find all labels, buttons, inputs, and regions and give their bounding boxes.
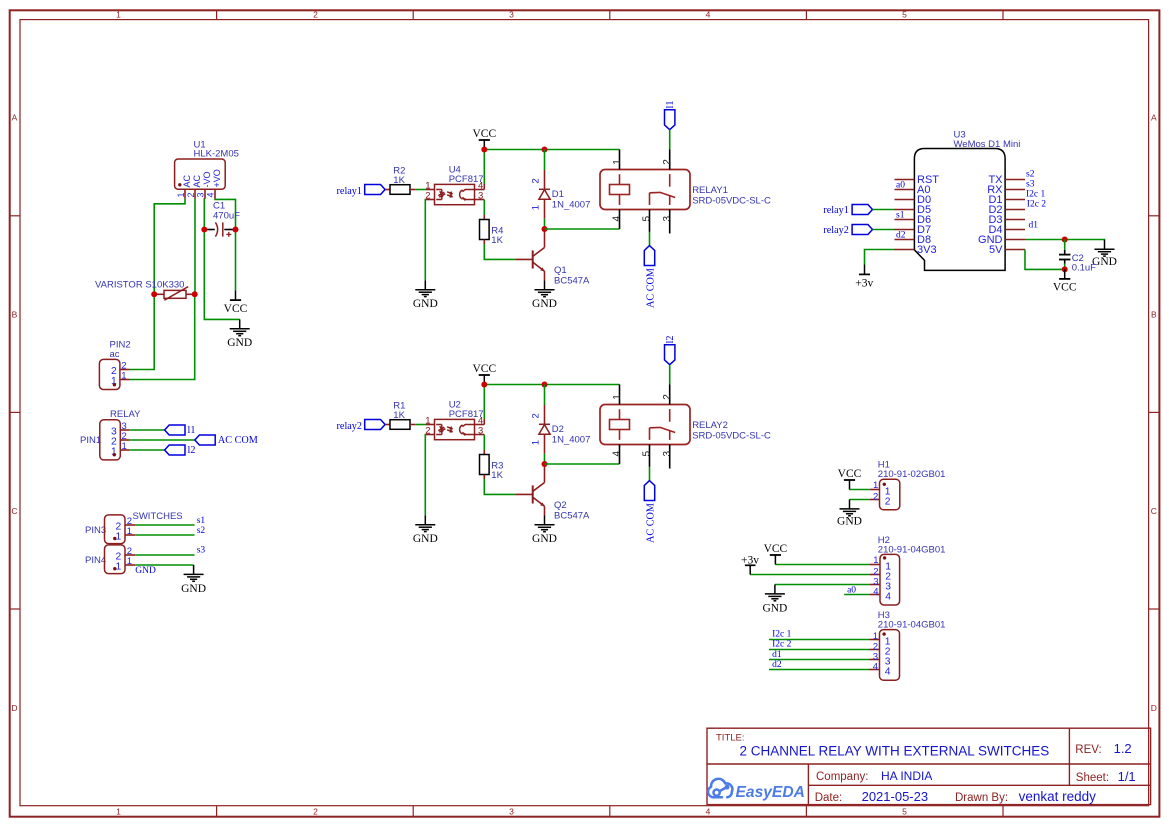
junction C2 top <box>1062 237 1068 243</box>
wire U1 pin1 to PIN2.2 / varistor left <box>130 199 186 370</box>
svg-text:l2: l2 <box>188 445 196 456</box>
svg-text:GND: GND <box>413 298 438 310</box>
svg-text:AC COM: AC COM <box>646 268 657 308</box>
wire U4 pin2 down to GND <box>424 200 427 281</box>
svg-text:VCC: VCC <box>838 468 862 480</box>
EasyEDA logo <box>708 779 805 801</box>
power flag VCC above H2.1 <box>764 543 788 564</box>
transistor Q2 BC547A <box>516 464 590 522</box>
svg-text:1: 1 <box>116 562 122 573</box>
svg-text:2: 2 <box>186 192 196 197</box>
svg-text:s2: s2 <box>197 526 206 536</box>
svg-text:AC: AC <box>182 174 192 187</box>
wire U1 pin3 to C1 left and GND <box>204 199 239 320</box>
wire PIN3.2 net s1 <box>135 516 205 526</box>
wire relay pin5 to AC COM flag <box>649 467 651 481</box>
svg-text:GND: GND <box>135 566 156 576</box>
svg-text:4: 4 <box>873 662 878 673</box>
svg-text:I2c 1: I2c 1 <box>1026 189 1046 199</box>
junction C2 bottom <box>1062 266 1068 272</box>
net flag l1 <box>165 425 196 436</box>
svg-text:1: 1 <box>176 192 186 197</box>
net flag relay1 to U3.D5 <box>823 205 872 216</box>
wire VCC rail down to U4 pin4 <box>483 150 485 190</box>
wire junction to relay pin4 <box>545 463 620 465</box>
svg-text:1: 1 <box>116 807 121 817</box>
svg-text:GND: GND <box>227 337 252 349</box>
svg-text:1.2: 1.2 <box>1114 741 1132 756</box>
svg-text:AC COM: AC COM <box>646 503 657 543</box>
relay RELAY2 SRD-05VDC-SL-C <box>600 385 771 469</box>
svg-text:1N_4007: 1N_4007 <box>552 434 591 445</box>
svg-text:AC COM: AC COM <box>218 435 258 446</box>
svg-text:1: 1 <box>873 555 878 566</box>
svg-text:BC547A: BC547A <box>554 276 590 287</box>
svg-text:HA INDIA: HA INDIA <box>881 769 932 783</box>
wire U3.3V3 to +3v <box>865 250 895 265</box>
svg-text:I2c 2: I2c 2 <box>772 640 792 650</box>
optocoupler U4 PCF817 <box>425 165 484 205</box>
svg-text:1: 1 <box>531 440 542 445</box>
transistor Q1 BC547A <box>516 229 590 287</box>
svg-text:+3v: +3v <box>741 554 759 566</box>
junction diode top <box>542 382 548 388</box>
wire VCC rail to diode D1 <box>544 150 546 171</box>
wire PIN1.1 to flag l2 <box>130 449 165 451</box>
power flag VCC below C2 <box>1053 269 1077 293</box>
wire U3.5V to C2 bottom <box>1025 250 1065 270</box>
svg-text:1K: 1K <box>491 470 503 481</box>
svg-text:venkat reddy: venkat reddy <box>1019 789 1097 804</box>
svg-text:VCC: VCC <box>764 543 788 555</box>
svg-text:1: 1 <box>116 10 121 20</box>
power flag VCC below C1 <box>224 291 248 316</box>
wire H2.2 to +3v <box>750 574 870 576</box>
svg-text:SWITCHES: SWITCHES <box>133 511 183 522</box>
resistor R3 1K <box>480 450 504 481</box>
svg-text:1: 1 <box>873 480 878 491</box>
wire U2 pin2 down to GND <box>424 435 427 516</box>
svg-text:4: 4 <box>205 192 215 197</box>
net label I2c 2 on U3.D2 <box>1027 199 1047 209</box>
diode D2 1N_4007 <box>531 405 591 454</box>
svg-text:C: C <box>11 506 17 516</box>
svg-text:a0: a0 <box>896 180 905 190</box>
wire diode D2 to junction <box>544 454 546 464</box>
svg-text:4: 4 <box>612 216 623 222</box>
title block <box>707 728 1151 804</box>
resistor R4 1K <box>480 215 504 246</box>
net flag relay2 input <box>337 420 386 433</box>
power flag VCC rail channel 2 <box>472 363 496 385</box>
net flag AC COM below relay pin5 <box>644 246 656 308</box>
svg-text:GND: GND <box>181 583 206 595</box>
svg-text:4: 4 <box>612 451 623 457</box>
svg-text:relay2: relay2 <box>823 225 848 236</box>
svg-text:1: 1 <box>116 532 122 543</box>
svg-text:GND: GND <box>837 516 862 528</box>
svg-text:5: 5 <box>902 10 907 20</box>
resistor R1 1K <box>385 400 415 429</box>
svg-text:3: 3 <box>509 807 514 817</box>
wire VCC rail to diode D2 <box>544 385 546 406</box>
junction varistor right <box>192 291 198 297</box>
svg-text:D: D <box>11 703 17 713</box>
wire U4 pin3 to resistor R4 <box>483 200 485 216</box>
svg-text:3: 3 <box>509 10 514 20</box>
svg-text:I2c 1: I2c 1 <box>772 630 792 640</box>
wire H3.2 net I2c 2 <box>769 640 870 650</box>
wire PIN1.3 to flag l1 <box>130 429 165 431</box>
svg-text:s3: s3 <box>1026 179 1035 189</box>
svg-text:4: 4 <box>873 586 878 597</box>
svg-text:s3: s3 <box>197 546 206 556</box>
net label d2 on U3.D8 <box>896 230 906 240</box>
module U1 HLK-2M05 <box>175 140 239 199</box>
connector PIN1 (RELAY) <box>80 409 141 460</box>
svg-text:210-91-02GB01: 210-91-02GB01 <box>878 469 946 480</box>
net label d1 on U3.D4 <box>1029 220 1039 230</box>
svg-text:1K: 1K <box>491 235 503 246</box>
svg-text:470uF: 470uF <box>213 211 240 222</box>
power flag GND right of U3 <box>1092 240 1117 268</box>
svg-text:2: 2 <box>313 10 318 20</box>
wire U1 pin4 to C1 right and VCC <box>215 199 236 291</box>
svg-text:Drawn By:: Drawn By: <box>955 792 1008 804</box>
svg-text:GND: GND <box>532 298 557 310</box>
svg-text:B: B <box>1151 310 1157 320</box>
power flag GND below H1.2 <box>837 500 862 528</box>
wire U2 pin3 to resistor R3 <box>483 435 485 451</box>
svg-text:relay1: relay1 <box>823 205 848 216</box>
wire flag l2 to relay pin2 <box>669 365 671 385</box>
svg-text:d1: d1 <box>772 650 782 660</box>
wire H3.4 net d2 <box>769 660 870 670</box>
svg-text:SRD-05VDC-SL-C: SRD-05VDC-SL-C <box>692 431 771 442</box>
svg-text:2: 2 <box>662 394 673 400</box>
svg-text:A: A <box>1151 113 1157 123</box>
svg-text:s2: s2 <box>1026 169 1035 179</box>
svg-text:relay1: relay1 <box>337 186 362 197</box>
svg-text:1: 1 <box>612 159 623 165</box>
wire flag l1 to relay pin2 <box>669 130 671 150</box>
svg-text:3: 3 <box>478 191 483 202</box>
power flag +3v above H2.2 <box>741 554 759 574</box>
svg-text:RELAY: RELAY <box>110 409 141 420</box>
resistor R2 1K <box>385 165 415 194</box>
svg-text:PIN4: PIN4 <box>85 555 106 566</box>
svg-text:5: 5 <box>642 216 653 222</box>
net flag AC COM below relay pin5 <box>644 481 656 543</box>
svg-text:1: 1 <box>127 526 132 537</box>
connector PIN4 (switches) <box>85 545 135 574</box>
svg-text:I2c 2: I2c 2 <box>1027 199 1047 209</box>
svg-text:3V3: 3V3 <box>917 244 937 256</box>
svg-text:1: 1 <box>122 441 127 452</box>
header H2 210-91-04GB01 <box>870 535 945 605</box>
svg-text:GND: GND <box>532 533 557 545</box>
svg-text:2 CHANNEL RELAY WITH EXTERNAL: 2 CHANNEL RELAY WITH EXTERNAL SWITCHES <box>740 744 1050 759</box>
svg-text:0.1uF: 0.1uF <box>1072 262 1096 273</box>
net flag AC COM <box>195 435 258 446</box>
svg-text:d2: d2 <box>896 230 906 240</box>
wire H2.4 net a0 <box>844 586 870 596</box>
header H3 210-91-04GB01 <box>870 610 946 680</box>
svg-text:relay2: relay2 <box>337 421 362 432</box>
diode D1 1N_4007 <box>531 170 591 219</box>
svg-text:SRD-05VDC-SL-C: SRD-05VDC-SL-C <box>692 196 771 207</box>
svg-text:2: 2 <box>313 807 318 817</box>
svg-text:5V: 5V <box>989 244 1003 256</box>
capacitor C1 470uF <box>204 201 240 237</box>
wire H1.1 to VCC <box>850 489 870 491</box>
net label s3 on U3.RX <box>1026 179 1035 189</box>
net flag l1 above relay pin2 <box>665 101 677 130</box>
svg-text:d2: d2 <box>772 660 782 670</box>
net flag l2 <box>165 445 196 456</box>
wire PIN4.1 to GND <box>135 565 193 576</box>
svg-text:1: 1 <box>531 205 542 210</box>
power flag GND below PIN4 <box>181 565 206 595</box>
net label I2c 1 on U3.D1 <box>1026 189 1046 199</box>
wire junction to relay pin4 <box>545 228 620 230</box>
svg-text:-VO: -VO <box>202 171 212 187</box>
varistor S10K330 <box>95 280 195 301</box>
net label s2 on U3.TX <box>1026 169 1035 179</box>
wire PIN1.2 to flag AC COM <box>130 439 195 441</box>
svg-text:EasyEDA: EasyEDA <box>736 784 805 801</box>
relay RELAY1 SRD-05VDC-SL-C <box>600 150 771 234</box>
connector PIN3 (switches) <box>85 511 183 544</box>
power flag VCC rail channel 1 <box>472 128 496 150</box>
power flag VCC above H1.1 <box>838 468 862 489</box>
svg-text:Sheet:: Sheet: <box>1076 772 1109 784</box>
svg-text:VCC: VCC <box>1053 282 1077 294</box>
wire U1 pin2 to PIN2.1 / varistor right <box>130 199 196 380</box>
svg-text:2: 2 <box>531 178 542 183</box>
wire H2.3 to GND <box>775 584 870 586</box>
svg-text:l1: l1 <box>665 101 676 109</box>
svg-text:1/1: 1/1 <box>1118 769 1136 784</box>
connector PIN2 (ac) <box>99 339 130 389</box>
junction diode bottom <box>542 461 548 467</box>
net flag relay1 input <box>337 185 386 198</box>
svg-text:HLK-2M05: HLK-2M05 <box>194 149 239 160</box>
svg-text:2: 2 <box>885 497 891 508</box>
svg-text:1N_4007: 1N_4007 <box>552 199 591 210</box>
svg-text:Date:: Date: <box>815 792 843 804</box>
svg-text:l1: l1 <box>188 425 196 436</box>
svg-text:s1: s1 <box>197 516 206 526</box>
wire H3.1 net I2c 1 <box>769 630 870 640</box>
wire VCC rail to relay pin1 <box>484 149 619 151</box>
svg-text:VCC: VCC <box>472 363 496 375</box>
svg-text:+3v: +3v <box>855 278 873 290</box>
optocoupler U2 PCF817 <box>425 400 484 440</box>
svg-text:4: 4 <box>885 592 891 603</box>
svg-text:3: 3 <box>196 192 206 197</box>
svg-text:GND: GND <box>762 602 787 614</box>
power flag GND below U2 <box>413 515 438 545</box>
svg-text:2: 2 <box>662 159 673 165</box>
net flag relay2 to U3.D7 <box>823 225 872 236</box>
svg-text:4: 4 <box>706 807 711 817</box>
svg-text:TITLE:: TITLE: <box>716 733 745 744</box>
svg-text:2021-05-23: 2021-05-23 <box>862 789 929 804</box>
svg-text:5: 5 <box>642 451 653 457</box>
svg-text:AC: AC <box>192 174 202 187</box>
svg-text:BC547A: BC547A <box>554 511 590 522</box>
junction diode top <box>542 147 548 153</box>
svg-text:4: 4 <box>706 10 711 20</box>
wire VCC rail to relay pin1 <box>484 384 619 386</box>
svg-text:+VO: +VO <box>212 169 222 187</box>
svg-text:ac: ac <box>110 349 120 360</box>
wire relay pin5 to AC COM flag <box>649 232 651 246</box>
svg-text:3: 3 <box>662 216 673 222</box>
wire relay2 flag to D7 <box>873 229 895 231</box>
wire R3 to Q2 base <box>484 479 516 494</box>
svg-text:1: 1 <box>121 370 126 381</box>
svg-text:2: 2 <box>873 492 878 503</box>
svg-text:PIN3: PIN3 <box>85 525 106 536</box>
power flag +3v below 3V3 <box>855 265 873 290</box>
net label a0 on U3.A0 <box>896 180 905 190</box>
wire R1 to U2 pin1 <box>415 424 426 426</box>
wire relay1 flag to D5 <box>873 209 895 211</box>
junction VCC stem <box>481 382 487 388</box>
svg-text:s1: s1 <box>896 210 905 220</box>
junction C1 right <box>233 227 239 233</box>
net flag l2 above relay pin2 <box>665 336 677 365</box>
svg-text:PIN1: PIN1 <box>80 435 101 446</box>
svg-text:REV:: REV: <box>1075 744 1101 756</box>
svg-text:VCC: VCC <box>472 128 496 140</box>
svg-text:3: 3 <box>662 451 673 457</box>
power flag GND below U1 pin3 <box>227 319 252 349</box>
wire diode D1 to junction <box>544 219 546 229</box>
svg-text:B: B <box>12 310 18 320</box>
wire R4 to Q1 base <box>484 244 516 259</box>
wire PIN4.2 net s3 <box>135 546 205 556</box>
svg-text:A: A <box>12 113 18 123</box>
power flag GND below Q1 <box>532 280 557 310</box>
svg-text:1: 1 <box>612 394 623 400</box>
power flag GND below H2.3 <box>762 585 787 615</box>
wire H1.2 to GND <box>850 499 870 501</box>
svg-text:C: C <box>1151 506 1157 516</box>
wire R2 to U4 pin1 <box>415 189 426 191</box>
svg-text:4: 4 <box>885 667 891 678</box>
svg-text:Company:: Company: <box>816 771 868 783</box>
capacitor C2 0.1uF <box>1059 240 1096 274</box>
svg-text:a0: a0 <box>847 586 856 596</box>
svg-text:D: D <box>1151 703 1157 713</box>
header H1 210-91-02GB01 <box>870 459 946 509</box>
svg-text:5: 5 <box>902 807 907 817</box>
svg-text:1: 1 <box>127 556 132 567</box>
svg-text:2: 2 <box>531 413 542 418</box>
svg-text:d1: d1 <box>1029 220 1039 230</box>
svg-text:GND: GND <box>413 533 438 545</box>
svg-text:3: 3 <box>478 426 483 437</box>
svg-text:VARISTOR S10K330: VARISTOR S10K330 <box>95 280 184 291</box>
wire VCC rail down to U2 pin4 <box>483 385 485 425</box>
junction varistor left <box>151 291 157 297</box>
module U3 WeMos D1 Mini <box>895 129 1026 270</box>
wire U3.GND to ground <box>1025 239 1105 242</box>
power flag GND below Q2 <box>532 515 557 545</box>
wire H3.3 net d1 <box>769 650 870 660</box>
junction VCC stem <box>481 147 487 153</box>
wire PIN3.1 net s2 <box>135 526 205 536</box>
svg-text:l2: l2 <box>665 336 676 344</box>
wire H2.1 to VCC <box>775 564 870 566</box>
junction diode bottom <box>542 226 548 232</box>
power flag GND below U4 <box>413 280 438 310</box>
svg-text:VCC: VCC <box>224 303 248 315</box>
net label s1 on U3.D6 <box>896 210 905 220</box>
junction C1 left <box>201 227 207 233</box>
